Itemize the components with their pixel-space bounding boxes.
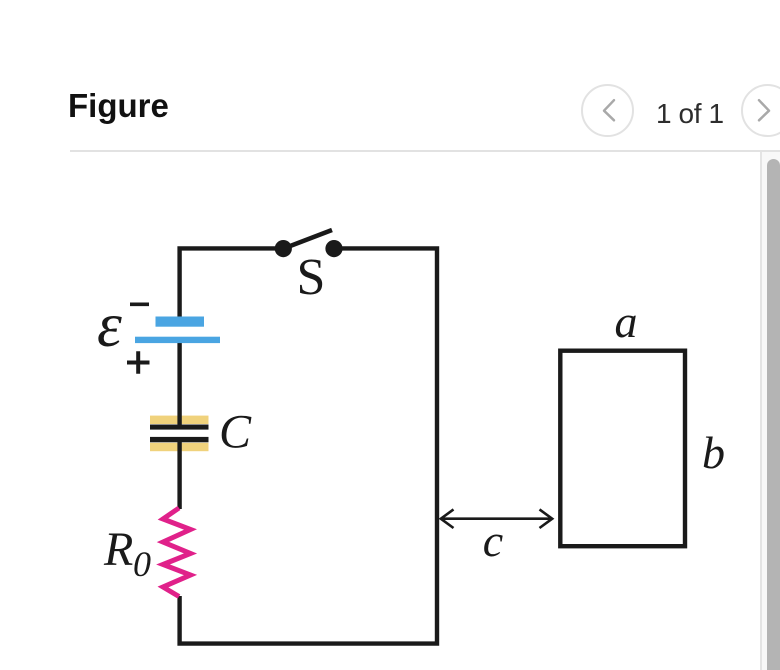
svg-text:ε: ε (97, 290, 122, 360)
svg-text:C: C (219, 406, 252, 459)
svg-text:R: R (103, 523, 133, 576)
svg-text:c: c (483, 515, 503, 566)
svg-text:S: S (297, 249, 326, 306)
svg-text:a: a (615, 296, 638, 347)
svg-text:0: 0 (133, 544, 151, 584)
svg-text:b: b (702, 427, 725, 478)
